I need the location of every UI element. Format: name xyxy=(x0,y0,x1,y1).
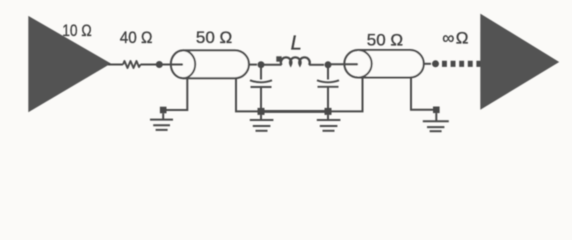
node 2 junction dot xyxy=(325,61,332,68)
wire TL1 left shield down xyxy=(166,78,188,110)
wire apex to resistor xyxy=(108,64,123,66)
ground 1 xyxy=(150,120,173,130)
transmission line TL2 50ohm body xyxy=(358,50,424,78)
wire node1 to C1 xyxy=(260,67,262,80)
wire C1 to bus xyxy=(260,87,262,111)
resistor R 40ohm xyxy=(123,61,141,68)
capacitor C2 bottom plate xyxy=(318,86,339,88)
wire C2 to bus xyxy=(327,87,329,111)
wire inductor to node 2 xyxy=(309,64,324,66)
wire TL2 output to node B xyxy=(424,63,431,65)
node A junction dot xyxy=(156,61,163,68)
wire stub to ground 2 xyxy=(260,115,262,120)
svg-text:50 Ω: 50 Ω xyxy=(196,28,232,47)
capacitor C1 top plate xyxy=(250,80,272,82)
capacitor C2 top plate xyxy=(317,80,339,82)
wire node1 to inductor xyxy=(264,64,282,66)
wire stub to ground 1 xyxy=(162,113,164,119)
wire resistor to node A xyxy=(141,64,157,66)
inductor L coil xyxy=(281,57,310,65)
svg-text:40 Ω: 40 Ω xyxy=(120,28,153,47)
wire stub to ground 4 xyxy=(435,113,437,121)
node 1 junction dot xyxy=(258,61,265,68)
svg-text:50 Ω: 50 Ω xyxy=(367,31,403,50)
wire TL2 right shield down xyxy=(411,78,433,110)
junction square ground 4 xyxy=(433,107,440,114)
paper background xyxy=(0,0,572,153)
open line infinite ohm dashed wire xyxy=(442,61,481,67)
transmission line TL2 input ellipse xyxy=(344,50,371,78)
wire node2 to C2 xyxy=(327,67,329,80)
amplifier/load triangle right xyxy=(480,14,559,110)
junction square ground 3 xyxy=(325,108,332,115)
wire stub to ground 3 xyxy=(327,115,329,120)
svg-text:L: L xyxy=(291,32,302,54)
wire TL1 right shield down to bus xyxy=(236,78,258,111)
svg-text:10 Ω: 10 Ω xyxy=(62,21,91,40)
ground 3 xyxy=(317,120,341,131)
svg-text:∞ Ω: ∞ Ω xyxy=(442,29,468,48)
wire node2 to TL2 center conductor xyxy=(331,63,359,65)
junction square ground 1 xyxy=(160,107,167,114)
node B junction dot xyxy=(432,60,439,67)
transmission line TL1 50ohm body xyxy=(183,50,249,78)
amplifier/source triangle left xyxy=(28,16,111,112)
wire node A to TL1 center conductor xyxy=(162,64,186,66)
transmission line TL1 input ellipse xyxy=(171,50,195,78)
inductor L core square xyxy=(276,56,281,61)
wire TL1 output to node 1 xyxy=(249,64,257,66)
ground 4 xyxy=(423,121,449,131)
ground bus thick xyxy=(259,110,330,113)
capacitor C1 bottom plate xyxy=(251,86,272,88)
ground 2 xyxy=(250,120,274,131)
wire bus to TL2 left shield xyxy=(330,78,363,112)
junction square ground 2 xyxy=(258,108,265,115)
